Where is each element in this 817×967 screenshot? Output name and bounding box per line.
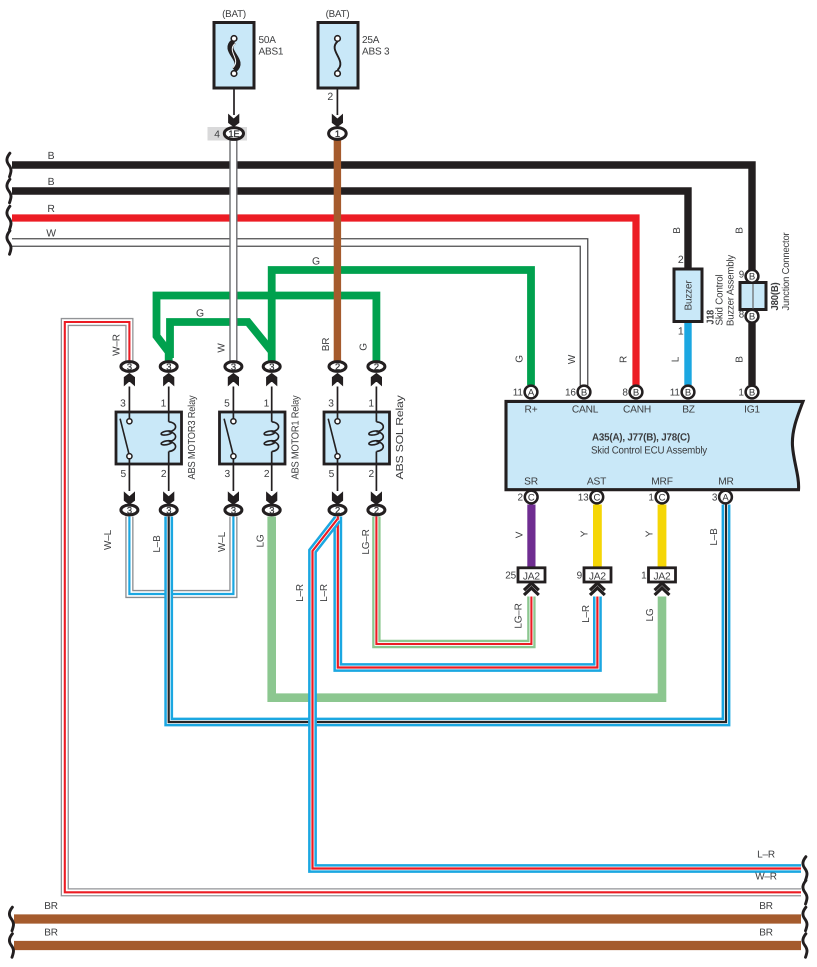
svg-text:W–R: W–R <box>755 872 777 883</box>
svg-text:CANL: CANL <box>572 405 599 416</box>
ECU pin circles top <box>525 386 538 399</box>
svg-text:ABS MOTOR3 Relay: ABS MOTOR3 Relay <box>187 395 198 480</box>
svg-text:BR: BR <box>759 928 773 939</box>
svg-text:B: B <box>749 272 755 283</box>
wire G net: ECU R+ run down to MOTOR1 relay pin 1 <box>272 270 531 385</box>
wire B bus 2 (to buzzer J18) <box>12 191 688 270</box>
wire BR from fuse ABS3 down to SOL relay pin 3 <box>334 140 341 361</box>
svg-text:R: R <box>47 204 55 215</box>
svg-text:JA2: JA2 <box>523 571 540 582</box>
svg-text:LG: LG <box>256 534 267 547</box>
svg-text:3: 3 <box>328 399 334 410</box>
wire W-L U-link between MOTOR3 pin 5 and MOTOR1 pin 3 <box>129 517 233 595</box>
svg-text:3: 3 <box>166 504 171 515</box>
wire BR bus bottom 1 <box>14 914 801 923</box>
svg-text:2: 2 <box>374 361 379 372</box>
svg-text:B: B <box>749 312 755 323</box>
svg-text:3: 3 <box>166 361 171 372</box>
svg-text:W–L: W–L <box>217 531 228 552</box>
wire Y: ECU AST to junction JA2 pin 9 <box>593 505 602 570</box>
svg-text:3: 3 <box>231 361 236 372</box>
svg-text:W: W <box>217 343 228 353</box>
wire V: ECU SR to junction JA2 pin 25 <box>527 505 535 570</box>
svg-text:L–R: L–R <box>295 584 306 602</box>
svg-text:W–R: W–R <box>112 334 123 356</box>
svg-text:L–B: L–B <box>709 528 720 546</box>
svg-text:V: V <box>515 531 526 538</box>
wire fuse ABS3 pin 2 to connector 1 <box>336 88 338 115</box>
svg-text:1: 1 <box>264 399 270 410</box>
svg-text:C: C <box>659 492 666 503</box>
svg-text:1: 1 <box>335 128 340 139</box>
svg-text:CANH: CANH <box>623 405 651 416</box>
svg-text:25: 25 <box>505 571 516 582</box>
svg-text:A: A <box>722 492 729 503</box>
svg-text:B: B <box>581 387 587 398</box>
svg-text:1: 1 <box>678 326 684 338</box>
wire G net: lower run MOTOR3 pin1 to MOTOR1 pin1 (diagonal) <box>170 322 271 358</box>
svg-text:1: 1 <box>738 388 744 399</box>
svg-text:L: L <box>671 356 682 362</box>
svg-text:BR: BR <box>759 901 773 912</box>
svg-text:ABS1: ABS1 <box>259 47 284 58</box>
wire L-R branch: SOL relay pin 5 to bottom-right edge <box>313 519 802 869</box>
svg-text:W–L: W–L <box>103 529 114 550</box>
svg-text:Buzzer: Buzzer <box>684 280 695 311</box>
svg-text:2: 2 <box>374 504 379 515</box>
svg-text:Junction Connector: Junction Connector <box>781 232 792 311</box>
svg-text:BR: BR <box>44 901 58 912</box>
svg-text:4: 4 <box>214 130 220 141</box>
svg-text:LG–R: LG–R <box>514 603 525 628</box>
svg-text:5: 5 <box>121 469 127 480</box>
wire Y: ECU MRF to junction JA2 pin 1 <box>658 505 667 570</box>
wire L-B: MOTOR3 relay pin 2 to ECU MR <box>169 505 726 723</box>
svg-text:G: G <box>359 343 370 351</box>
fuse ABS1 50A <box>214 23 254 89</box>
junction JA2 pin 1 <box>649 568 676 582</box>
svg-text:3: 3 <box>127 361 132 372</box>
fuse ABS3 25A <box>318 23 358 89</box>
relay ABS MOTOR1 Relay <box>220 412 286 464</box>
wire G net: middle run MOTOR3 pin1 to SOL relay pin 1 <box>157 296 377 362</box>
svg-text:5: 5 <box>329 469 335 480</box>
svg-text:3: 3 <box>269 504 274 515</box>
svg-text:B: B <box>48 177 55 188</box>
wire break squiggles left <box>7 153 11 177</box>
svg-text:1: 1 <box>648 493 654 504</box>
svg-text:G: G <box>312 257 320 268</box>
wire W bus (to CANL) <box>12 243 584 386</box>
wire R bus (to CANH) <box>12 218 636 385</box>
svg-text:MRF: MRF <box>651 477 672 488</box>
svg-text:A: A <box>528 387 535 398</box>
svg-text:Skid Control ECU Assembly: Skid Control ECU Assembly <box>591 445 708 456</box>
svg-text:B: B <box>749 387 755 398</box>
svg-text:ABS SOL Relay: ABS SOL Relay <box>395 394 406 479</box>
svg-text:B: B <box>48 151 55 162</box>
svg-text:IG1: IG1 <box>744 405 760 416</box>
svg-text:9: 9 <box>739 270 744 281</box>
svg-text:B: B <box>685 387 691 398</box>
wire LG-R: SOL relay pin 2 to junction JA2 pin 25 <box>376 517 531 645</box>
wire break squiggles right <box>803 857 807 881</box>
ECU pin circles bottom <box>525 491 538 504</box>
svg-text:1: 1 <box>161 399 167 410</box>
svg-text:L–B: L–B <box>152 535 163 553</box>
svg-text:W: W <box>567 354 578 364</box>
svg-text:Skid Control: Skid Control <box>715 275 726 326</box>
relay ABS SOL Relay <box>324 412 390 464</box>
svg-text:50A: 50A <box>259 35 277 46</box>
junction JA2 pin 9 <box>584 568 611 582</box>
svg-text:BR: BR <box>321 338 332 352</box>
svg-text:L–R: L–R <box>581 605 592 623</box>
svg-text:3: 3 <box>120 399 126 410</box>
svg-text:L–R: L–R <box>319 584 330 602</box>
svg-text:1E: 1E <box>228 128 239 139</box>
svg-text:R+: R+ <box>525 405 538 416</box>
svg-text:BR: BR <box>44 928 58 939</box>
svg-text:(BAT): (BAT) <box>326 9 350 20</box>
svg-text:Buzzer Assembly: Buzzer Assembly <box>725 255 736 326</box>
wire LG: MOTOR1 relay pin 2 to junction JA2 pin 1 <box>272 517 662 698</box>
svg-text:JA2: JA2 <box>589 571 606 582</box>
svg-text:8: 8 <box>622 388 628 399</box>
buzzer J18 Skid Control Buzzer Assembly <box>674 269 702 322</box>
svg-text:2: 2 <box>335 504 340 515</box>
svg-text:A35(A), J77(B), J78(C): A35(A), J77(B), J78(C) <box>592 433 690 444</box>
svg-text:2: 2 <box>335 361 340 372</box>
junction connector J80(B) <box>740 283 766 310</box>
svg-text:MR: MR <box>718 477 733 488</box>
svg-text:11: 11 <box>513 388 524 399</box>
svg-text:2: 2 <box>161 469 167 480</box>
svg-text:ABS 3: ABS 3 <box>362 47 390 58</box>
svg-text:3: 3 <box>231 504 236 515</box>
junction JA2 pin 25 <box>518 568 545 582</box>
svg-text:11: 11 <box>670 388 681 399</box>
svg-text:8: 8 <box>739 310 745 321</box>
svg-text:C: C <box>528 492 535 503</box>
svg-text:SR: SR <box>524 477 538 488</box>
wire B bus 1 (battery, to IG1 via J80) <box>12 165 752 385</box>
svg-text:2: 2 <box>369 469 375 480</box>
svg-text:3: 3 <box>269 361 274 372</box>
svg-text:AST: AST <box>587 477 606 488</box>
svg-text:B: B <box>672 227 683 234</box>
relay ABS MOTOR3 Relay <box>116 412 182 464</box>
svg-text:3: 3 <box>225 469 231 480</box>
svg-text:9: 9 <box>577 571 583 582</box>
svg-text:1: 1 <box>368 399 374 410</box>
svg-text:25A: 25A <box>362 35 380 46</box>
svg-text:L–R: L–R <box>757 850 775 861</box>
svg-text:Y: Y <box>580 530 591 537</box>
wire L: buzzer pin 1 to ECU BZ <box>684 321 691 385</box>
svg-text:2: 2 <box>518 493 524 504</box>
relay pin stub wires and arrows <box>128 387 130 413</box>
svg-text:16: 16 <box>565 388 576 399</box>
svg-text:3: 3 <box>712 493 718 504</box>
svg-text:2: 2 <box>264 469 270 480</box>
svg-text:B: B <box>633 387 639 398</box>
svg-text:W: W <box>46 229 56 240</box>
connector 1E <box>208 127 248 141</box>
svg-text:JA2: JA2 <box>654 571 671 582</box>
svg-text:J80(B): J80(B) <box>770 283 781 311</box>
svg-text:1: 1 <box>641 571 647 582</box>
svg-text:13: 13 <box>578 493 589 504</box>
svg-text:2: 2 <box>678 254 684 266</box>
wire fuse ABS1 to connector 1E <box>233 88 235 115</box>
svg-text:LG: LG <box>645 608 656 621</box>
wire W from fuse ABS1 (1E) down to MOTOR1 relay pin 5 <box>229 140 237 361</box>
svg-text:3: 3 <box>127 504 132 515</box>
svg-text:ABS MOTOR1 Relay: ABS MOTOR1 Relay <box>291 395 302 480</box>
svg-text:C: C <box>593 492 600 503</box>
wire L-R: SOL relay pin 5 to junction JA2 pin 9 <box>338 517 598 668</box>
svg-text:BZ: BZ <box>682 405 695 416</box>
wire W-R loop: MOTOR3 relay pin 3 up, left, down to bottom-right edge <box>65 322 801 892</box>
svg-text:5: 5 <box>224 399 230 410</box>
connector 1 <box>329 128 347 140</box>
relay connector ovals <box>121 362 138 372</box>
svg-text:Y: Y <box>645 530 656 537</box>
wire BR bus bottom 2 <box>14 941 801 950</box>
svg-text:LG–R: LG–R <box>361 529 372 554</box>
ECU A35(A), J77(B), J78(C) Skid Control ECU Assembly <box>506 401 803 489</box>
svg-text:B: B <box>735 356 746 363</box>
svg-text:G: G <box>515 355 526 363</box>
svg-text:G: G <box>196 309 204 320</box>
svg-text:(BAT): (BAT) <box>222 9 246 20</box>
svg-text:R: R <box>619 356 630 363</box>
svg-text:2: 2 <box>327 91 333 103</box>
svg-text:B: B <box>735 227 746 234</box>
